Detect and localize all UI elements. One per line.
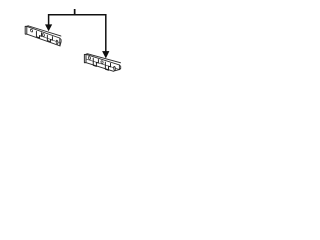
left mounting bracket (part 1) [25, 23, 61, 47]
right bracket: top face back edge [86, 52, 121, 65]
right bracket: clip notch 2 [105, 62, 110, 71]
right bracket: oval slot near right end [114, 66, 116, 70]
leader arrowhead to right bracket [103, 51, 109, 57]
right bracket: clip notch 1 [93, 58, 98, 67]
right bracket: bottom lip edge [86, 63, 113, 72]
right bracket: bottom bend line [86, 59, 119, 70]
right bracket: sheared end cut of bottom lip [113, 67, 119, 73]
left bracket: left end cap [25, 26, 27, 35]
left bracket: bottom bend line [42, 36, 60, 42]
right bracket: round hole 1 [88, 56, 90, 59]
callout bracket wire [49, 15, 106, 52]
left bracket: round hole 2 [42, 33, 44, 36]
left bracket: clip notch 1 [36, 31, 41, 39]
right mounting bracket (part 1) [84, 51, 120, 74]
left bracket: bottom lip edge [27, 34, 60, 46]
left bracket: top edge of front face [27, 26, 60, 38]
right bracket: top edge of front face [86, 54, 119, 65]
left bracket: right end tab [60, 38, 61, 46]
left bracket: oval slot near right end [56, 40, 58, 44]
part label 1 (tick above callout line) [74, 9, 76, 15]
left bracket: round hole 1 [30, 29, 32, 32]
left bracket: clip notch 2 [47, 35, 52, 43]
right bracket: round hole 2 [101, 61, 103, 64]
right bracket: right end tab [119, 65, 120, 70]
leader arrowhead to left bracket [46, 25, 52, 31]
left bracket: top face back edge [27, 24, 61, 39]
right bracket: left end cap [84, 54, 86, 63]
